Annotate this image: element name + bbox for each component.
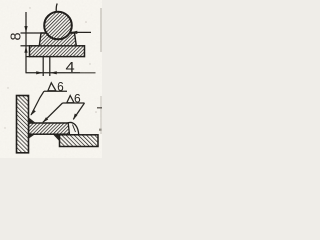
- leader line 2b (to lap weld bead): [73, 103, 84, 119]
- weld callout 2: shelf: [63, 102, 85, 104]
- extension line top (collar top): [21, 32, 45, 34]
- weld callout 1: shelf: [44, 90, 67, 92]
- leader line 2a (to bar top): [43, 103, 63, 122]
- scan edge artifact (right border line): [100, 8, 102, 52]
- T-joint fillet weld upper (solid): [29, 117, 36, 123]
- round bar (circle cross-section): [44, 12, 72, 40]
- dimension 8: vertical dimension line: [21, 12, 45, 73]
- lap weld fillet left (solid): [53, 134, 60, 141]
- lower horizontal plate (hatched \): [60, 135, 99, 147]
- leader line 1 (to T-joint): [31, 91, 44, 115]
- vertical plate (hatched \): [17, 96, 29, 153]
- plate (base plate, hatched): [30, 46, 85, 57]
- dimension 4 line: [26, 72, 81, 74]
- paper noise overlay: [0, 0, 102, 158]
- extension line bottom (plate top): [21, 45, 30, 47]
- plate bottom edge extension to dim line: [26, 56, 31, 58]
- stem tick on top of bar: [55, 4, 58, 13]
- scan speckles: [4, 7, 96, 128]
- lap weld bead right (outlined): [68, 122, 79, 134]
- dimension 8 arrows: [24, 26, 27, 33]
- upper horizontal bar (hatched /): [29, 123, 70, 134]
- leader line at right (points to collar): [71, 31, 92, 33]
- T-joint fillet weld lower (solid): [29, 134, 36, 139]
- dimension 4 arrows: [36, 71, 43, 74]
- weld symbol triangle 1: [48, 83, 56, 91]
- dimension 4: extension lines: [26, 57, 96, 76]
- weld symbol triangle 2: [67, 96, 74, 103]
- weld collar (weld bead around bar base): [39, 33, 76, 46]
